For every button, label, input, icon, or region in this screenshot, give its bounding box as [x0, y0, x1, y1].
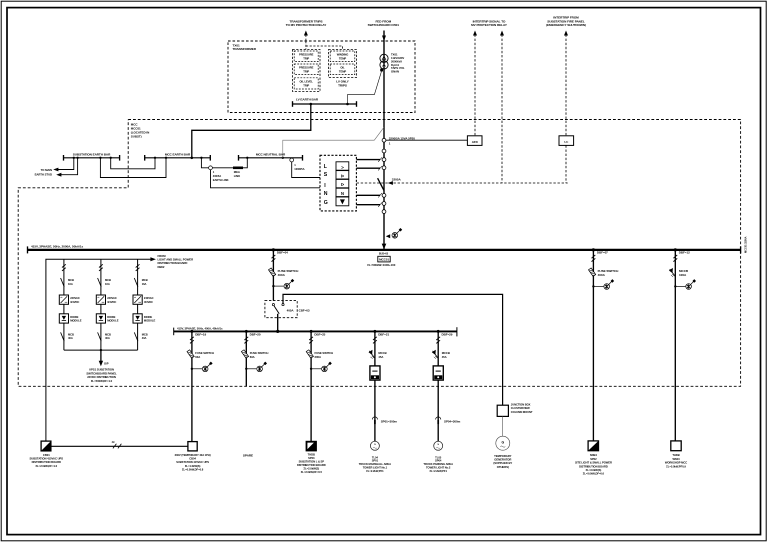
wire sub-to-mcc earth link 2: [100, 158, 166, 178]
svg-text:ONAN: ONAN: [391, 70, 399, 74]
wire junction box to generator: [502, 416, 504, 436]
board CB04 (open square): [188, 442, 197, 451]
wire UPS feed and CB01 drop: [46, 259, 152, 441]
wire F1 drop: [272, 250, 274, 301]
socket marker F5: [372, 417, 377, 424]
node mcc earth bar c (earth drop): [191, 157, 194, 160]
svg-text:WORKSHOP MCC: WORKSHOP MCC: [665, 461, 687, 465]
wire neutral CT input to incomer unit: [292, 162, 320, 178]
incomer protection unit LSING box: [320, 155, 356, 211]
svg-text:SUBST): SUBST): [131, 135, 142, 139]
svg-text:40A: 40A: [105, 336, 110, 340]
changeover switch box (temporary generator): [265, 301, 297, 318]
svg-text:DIODE: DIODE: [70, 315, 78, 319]
label LV only trips: [336, 80, 349, 88]
node sub earth bar b: [76, 157, 78, 159]
label UPS1: [86, 368, 117, 383]
arrow up intertrip fire: [564, 31, 568, 36]
svg-text:63A: 63A: [195, 355, 200, 359]
board workshop MCC (open square): [671, 441, 681, 451]
label CB01: [30, 453, 64, 468]
svg-text:U<: U<: [564, 140, 568, 144]
node mcc earth bar a: [154, 157, 156, 159]
arrow up trip signal: [304, 31, 308, 36]
svg-text:SDB4: SDB4: [590, 453, 597, 457]
label from DB02: [158, 254, 194, 269]
wire main incomer from switchboard: [383, 31, 385, 250]
mcb blade ups100 bottom: [98, 332, 102, 341]
mcb blade ups63 bottom: [61, 332, 65, 341]
wire earth fault input to incomer unit: [211, 170, 321, 188]
svg-text:TEMP: TEMP: [339, 56, 346, 60]
svg-text:DISTRIBUTION BOARD: DISTRIBUTION BOARD: [297, 463, 326, 467]
svg-text:DBF=20: DBF=20: [250, 332, 261, 336]
svg-text:TRIPS: TRIPS: [338, 84, 347, 88]
svg-text:ΣL=2.0kW,DF=1.0: ΣL=2.0kW,DF=1.0: [35, 464, 57, 468]
kWh meter F6: [433, 366, 443, 380]
node UPS output: [100, 349, 102, 351]
padlock indicator on incomer: [386, 228, 402, 238]
svg-text:THDB: THDB: [308, 452, 315, 456]
svg-text:ΣL=5.0kW,PF0.9: ΣL=5.0kW,PF0.9: [666, 464, 686, 468]
substation earth bar: [64, 157, 120, 159]
temporary generator symbol: [496, 436, 510, 450]
wire dashed trip to transformer box: [305, 35, 307, 42]
svg-text:ΣL=500kW=1000+100: ΣL=500kW=1000+100: [367, 263, 395, 267]
svg-text:MCB: MCB: [105, 278, 111, 282]
svg-text:/24VDC: /24VDC: [107, 300, 116, 304]
transformer TX01 enclosure box: [228, 41, 415, 113]
label SDB4: [575, 453, 612, 476]
arrow up intertrip 2: [500, 31, 504, 36]
svg-text:TOWER LIGHT No.2: TOWER LIGHT No.2: [426, 465, 451, 469]
psu converter box ups137: [133, 295, 142, 304]
node mcc earth bar d: [200, 157, 202, 159]
svg-text:DIODE: DIODE: [144, 315, 152, 319]
node sub earth bar a: [73, 157, 75, 159]
svg-text:(EMERGENCY SHUTDOWN): (EMERGENCY SHUTDOWN): [546, 23, 586, 27]
junction box column mount: [497, 405, 508, 416]
label workshop MCC: [665, 453, 687, 468]
UPS module circuit x=137.6: [137, 259, 139, 350]
wire to main earth stud 2: [60, 158, 78, 175]
svg-text:SP04=300m: SP04=300m: [444, 420, 461, 424]
lower bus 415V 400A: [174, 330, 457, 332]
svg-text:ΣL=500W,DF=1.0: ΣL=500W,DF=1.0: [91, 379, 113, 383]
svg-text:OTHERS): OTHERS): [497, 465, 509, 469]
svg-text:40A: 40A: [68, 336, 73, 340]
node sub earth bar c: [99, 157, 101, 159]
wire dashed intertrip 2: [501, 35, 503, 184]
MEA removable link element: [233, 167, 243, 170]
wire sub-to-mcc earth link 1: [111, 158, 155, 169]
svg-text:LINK: LINK: [234, 174, 240, 178]
node F1 lock tap: [272, 285, 274, 287]
svg-text:SPARE: SPARE: [243, 453, 253, 457]
svg-text:EARTH LINK: EARTH LINK: [213, 178, 229, 182]
undervoltage relay box: [559, 136, 574, 146]
trip device oil level trip: [294, 78, 318, 89]
svg-text:SUBSTATION 415VAC UPS: SUBSTATION 415VAC UPS: [30, 457, 64, 461]
wire earth drop from LV earth bar to MCC earth bar: [192, 104, 311, 158]
svg-text:ΣL=2.2kW,PF1: ΣL=2.2kW,PF1: [366, 469, 384, 473]
svg-text:G: G: [324, 200, 328, 206]
svg-text:240VAC: 240VAC: [144, 296, 154, 300]
svg-text:S: S: [324, 172, 328, 178]
wire CB01 to CB04 temporary link: [51, 445, 188, 447]
svg-text:DIODE: DIODE: [107, 315, 115, 319]
svg-text:16A: 16A: [68, 282, 73, 286]
svg-text:400A: 400A: [278, 273, 286, 277]
svg-text:MV PROTECTION RELAY: MV PROTECTION RELAY: [471, 23, 508, 27]
label TX01 TRANSFORMER: [233, 43, 257, 51]
svg-text:TRIP: TRIP: [303, 69, 309, 73]
board CB01 (half filled square): [41, 441, 51, 451]
svg-text:ΣL=2.2kW,PF1: ΣL=2.2kW,PF1: [429, 469, 447, 473]
svg-text:MCB: MCB: [105, 333, 111, 337]
svg-text:400A: 400A: [287, 309, 295, 313]
mcb blade ups137 top: [134, 278, 138, 287]
svg-text:/24VDC: /24VDC: [70, 300, 79, 304]
trip device oil temp: [330, 64, 355, 75]
svg-text:40A: 40A: [142, 336, 147, 340]
node bus F1: [272, 248, 275, 251]
svg-text:THDB: THDB: [672, 453, 679, 457]
node on LV earth bar left: [310, 103, 313, 106]
trip device group B box: [329, 50, 357, 78]
svg-text:G: G: [502, 440, 505, 444]
tower light TL04 symbol: [370, 441, 379, 450]
svg-text:TO MV PROTECTION RELAY: TO MV PROTECTION RELAY: [286, 23, 328, 27]
svg-text:TRANSFORMER: TRANSFORMER: [233, 47, 257, 51]
svg-text:415V, 3PHASE, 50Hz, 400A, 40kA: 415V, 3PHASE, 50Hz, 400A, 40kA/1s: [177, 326, 223, 330]
wire transformer neutral earthing link: [348, 71, 382, 104]
svg-text:OIL LEVEL: OIL LEVEL: [300, 79, 314, 83]
svg-text:DBF=07: DBF=07: [597, 251, 608, 255]
diode module box ups137: [133, 314, 142, 323]
svg-text:TO MAIN: TO MAIN: [41, 168, 52, 172]
svg-text:MCC NEUTRAL BAR: MCC NEUTRAL BAR: [256, 153, 286, 157]
node changeover to lower bus: [276, 330, 279, 333]
svg-text:CBF=03: CBF=03: [299, 309, 310, 313]
svg-text:CLUSTERVIEW: CLUSTERVIEW: [511, 406, 530, 410]
svg-text:DISTRIBUTION BOARD: DISTRIBUTION BOARD: [579, 464, 608, 468]
arrow down fed-from: [382, 36, 386, 42]
svg-text:ΣL=5.0kW,DF=0.6: ΣL=5.0kW,DF=0.6: [583, 472, 605, 476]
LV earth bar: [293, 103, 357, 105]
label THDB SP03: [297, 452, 326, 474]
svg-text:DBF=21: DBF=21: [378, 332, 389, 336]
MCC neutral bar: [239, 157, 303, 159]
wire dashed intertrip fire: [565, 35, 567, 136]
svg-text:200A: 200A: [315, 355, 321, 359]
node mcc earth bar b: [165, 157, 167, 159]
label TL04: [359, 455, 391, 473]
label: fed from switchboard CB01: [368, 19, 400, 27]
svg-text:MCC01 3200A: MCC01 3200A: [744, 236, 748, 253]
svg-text:16A: 16A: [105, 282, 110, 286]
svg-text:LV EARTH BAR: LV EARTH BAR: [296, 98, 319, 102]
svg-text:/24VDC: /24VDC: [144, 300, 153, 304]
svg-text:EARTH STUD: EARTH STUD: [35, 173, 52, 177]
svg-text:DBF=19: DBF=19: [195, 332, 206, 336]
label MEA link: [213, 170, 229, 182]
label transformer data: [391, 53, 405, 74]
svg-text:ΣL=1.0kW(S): ΣL=1.0kW(S): [185, 464, 201, 468]
svg-text:DBF=29: DBF=29: [442, 332, 453, 336]
svg-text:SUBSTATION 415VAC UPS: SUBSTATION 415VAC UPS: [176, 460, 209, 464]
svg-text:230V (TEMPORARY 40A 1PH): 230V (TEMPORARY 40A 1PH): [175, 453, 211, 457]
svg-text:PRESSURE: PRESSURE: [299, 52, 314, 56]
svg-text:63A: 63A: [250, 355, 255, 359]
wire changeover output to lower bus: [277, 314, 279, 332]
socket marker F6: [436, 417, 441, 424]
svg-text:SUBSTATION EARTH BAR: SUBSTATION EARTH BAR: [73, 153, 111, 157]
label: intertrip signal to MV protection relay: [471, 19, 508, 27]
svg-text:45A: 45A: [442, 355, 447, 359]
svg-text:MODULE: MODULE: [144, 319, 156, 323]
label MCC MCC01: [131, 123, 149, 139]
MCC earth bar: [145, 157, 211, 159]
UPS collector bar: [64, 349, 138, 351]
diode module box ups63: [59, 314, 68, 323]
diode module box ups100: [96, 314, 105, 323]
svg-text:3200A: 3200A: [392, 177, 402, 181]
arrow incomer joins bus: [382, 244, 387, 250]
svg-text:TRIP: TRIP: [303, 83, 309, 87]
svg-text:45A: 45A: [378, 355, 383, 359]
svg-text:TRIP: TRIP: [303, 56, 309, 60]
UPS output arrow: [100, 350, 102, 362]
trip device pressure trip 2: [294, 64, 318, 75]
node on LV earth bar right: [346, 103, 349, 106]
link point circle on neutral bar: [290, 158, 294, 162]
wire generator input feed: [283, 294, 503, 405]
svg-text:SWITCHBOARD CB01: SWITCHBOARD CB01: [368, 23, 400, 27]
wire CT to protection relay: [386, 139, 468, 141]
svg-text:CB01: CB01: [43, 453, 50, 457]
svg-text:ΣL=3.0kW(S): ΣL=3.0kW(S): [586, 468, 602, 472]
fuse-switch F1: [268, 268, 275, 276]
tower light TL05 symbol: [434, 441, 443, 450]
label to main earth stud: [35, 168, 52, 177]
wire dashed ACB trip line 3200A: [357, 182, 568, 184]
svg-text:N: N: [341, 191, 344, 196]
node neutral bar b: [282, 157, 284, 159]
main ACB switch blade: [378, 178, 384, 190]
svg-text:DB02: DB02: [158, 265, 165, 269]
svg-text:100A: 100A: [679, 273, 687, 277]
svg-text:240VAC: 240VAC: [107, 296, 117, 300]
node sub earth bar d: [110, 157, 112, 159]
UPS module circuit x=63.9: [63, 259, 65, 350]
chevrons ups100: [99, 264, 103, 271]
wire dashed intertrip 1: [474, 35, 476, 136]
svg-text:COLUMN MOUNT: COLUMN MOUNT: [511, 410, 533, 414]
svg-text:MODULE: MODULE: [107, 319, 119, 323]
svg-text:240VAC: 240VAC: [70, 296, 80, 300]
wire to main earth stud 1: [57, 158, 74, 170]
wire neutral riser to incomer: [283, 127, 384, 158]
svg-text:16A: 16A: [142, 282, 147, 286]
svg-text:SP03: SP03: [308, 456, 315, 460]
label: transformer trips to MV protection relay: [286, 19, 328, 27]
mcb blade ups137 bottom: [134, 332, 138, 341]
svg-text:DBF=12: DBF=12: [679, 251, 690, 255]
link point circle on earth link: [209, 166, 213, 170]
CT circles on main incomer: [382, 138, 386, 142]
svg-text:TEMP: TEMP: [339, 69, 346, 73]
svg-text:SP02: SP02: [590, 457, 597, 461]
svg-text:O/P: O/P: [104, 362, 109, 366]
chevrons ups137: [136, 264, 140, 271]
label temporary generator: [493, 454, 512, 469]
label neutral CT: [294, 163, 304, 171]
svg-text:ΣL=2.0kW,DF=0.5: ΣL=2.0kW,DF=0.5: [301, 470, 323, 474]
psu converter box ups100: [96, 295, 105, 304]
labels L S I N G: [324, 164, 328, 206]
svg-text:BUS=05: BUS=05: [379, 253, 389, 256]
label CB04: [175, 453, 211, 472]
wire earth-to-neutral MEA link: [201, 158, 247, 168]
UPS module circuit x=100.9: [100, 259, 102, 350]
svg-text:ΣL=2.0kW(S): ΣL=2.0kW(S): [304, 466, 320, 470]
svg-text:MCB: MCB: [142, 333, 148, 337]
padlock indicator F1: [284, 279, 294, 289]
svg-text:MCB: MCB: [142, 278, 148, 282]
svg-text:TOWER LIGHT No.1: TOWER LIGHT No.1: [363, 465, 388, 469]
svg-text:MCB: MCB: [68, 333, 74, 337]
trip device group A box: [293, 50, 321, 92]
chevrons F1: [272, 255, 276, 262]
svg-text:SP01=300m: SP01=300m: [381, 420, 398, 424]
kWh meter F5: [370, 366, 380, 380]
svg-text:MODULE: MODULE: [70, 319, 82, 323]
svg-text:WS03: WS03: [672, 457, 680, 461]
protection relay box AFD: [467, 136, 482, 146]
transformer neutral terminal: [380, 69, 383, 72]
svg-text:100R/5A: 100R/5A: [294, 167, 304, 171]
psu converter box ups63: [59, 295, 68, 304]
svg-text:SUBSTATION L & SP: SUBSTATION L & SP: [299, 459, 325, 463]
svg-text:ΣL=0.5kW,DF=0.8: ΣL=0.5kW,DF=0.8: [182, 468, 204, 472]
transformer TX01 symbol: [380, 54, 388, 62]
trip device winding temp: [330, 51, 355, 62]
board THDB SP03 (mostly filled square): [306, 441, 316, 451]
label F1 fuse: [278, 269, 299, 277]
label: intertrip from substation fire panel: [546, 16, 586, 27]
trip device pressure trip 1: [294, 51, 318, 62]
svg-text:N: N: [324, 191, 328, 197]
svg-text:SITE LIGHT & SMALL POWER: SITE LIGHT & SMALL POWER: [575, 461, 612, 465]
svg-text:OIL: OIL: [340, 65, 345, 69]
chevrons ups63: [62, 264, 66, 271]
svg-text:DBF=04: DBF=04: [277, 251, 288, 255]
svg-text:MCB: MCB: [68, 278, 74, 282]
wire dashed trip tee inside tx box: [306, 41, 343, 50]
changeover terminals: [272, 304, 274, 306]
mcb blade ups63 top: [61, 278, 65, 287]
node neutral bar a: [246, 157, 248, 159]
CT wires from incomer to relay unit: [356, 159, 380, 161]
relay element boxes: [336, 162, 349, 170]
svg-text:DISTRIBUTION BOARD: DISTRIBUTION BOARD: [32, 460, 61, 464]
changeover blade: [274, 306, 279, 314]
svg-text:AFD: AFD: [472, 140, 479, 144]
arrow up intertrip 1: [473, 31, 477, 36]
board SDB4 (half filled square): [588, 441, 598, 451]
svg-text:>: >: [341, 165, 344, 170]
svg-text:JUNCTION BOX: JUNCTION BOX: [511, 402, 531, 406]
svg-text:DBF=25: DBF=25: [314, 332, 325, 336]
label junction box: [511, 402, 533, 413]
mcb blade ups100 top: [98, 278, 102, 287]
svg-text:MCC EARTH BAR: MCC EARTH BAR: [165, 153, 191, 157]
svg-text:PRESSURE: PRESSURE: [299, 65, 314, 69]
MCC MCC01 enclosure dashed outline: [18, 120, 740, 387]
svg-text:400A: 400A: [598, 273, 606, 277]
svg-text:400/5A: 400/5A: [213, 174, 221, 178]
svg-text:WINDING: WINDING: [337, 52, 349, 56]
svg-text:CB04: CB04: [189, 457, 196, 461]
svg-text:415V, 3PHASE, 50Hz, 2000A, 50k: 415V, 3PHASE, 50Hz, 2000A, 50kA/1s: [31, 245, 84, 249]
main bus 415V 2000A: [28, 249, 741, 251]
label TL05: [423, 455, 453, 473]
svg-text:MCC01: MCC01: [379, 258, 389, 262]
